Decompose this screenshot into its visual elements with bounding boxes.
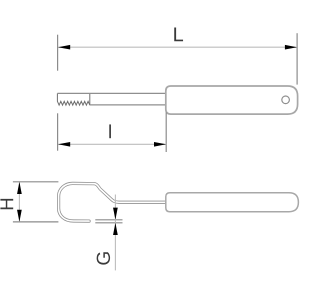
dimension H extension line bottom xyxy=(13,221,59,223)
label L xyxy=(174,27,183,41)
dimension L line xyxy=(58,46,297,48)
handle (side view) xyxy=(166,193,299,212)
dimension l extension line right xyxy=(165,112,167,152)
handle hole xyxy=(282,96,290,104)
arrow G up xyxy=(113,223,118,235)
serrated tip (top view) xyxy=(57,93,89,105)
arrow l left xyxy=(58,142,70,147)
dimension l line xyxy=(58,143,166,145)
dimension l extension line left xyxy=(57,113,59,150)
arrow H bottom xyxy=(17,210,22,222)
dimension G line xyxy=(114,195,116,271)
arrow G down xyxy=(113,208,118,220)
dimension L extension line right xyxy=(296,33,298,84)
dimension H line xyxy=(18,182,20,222)
label H xyxy=(0,199,13,209)
arrow L left xyxy=(58,45,70,50)
dimension L extension line left xyxy=(57,35,59,71)
arrow H top xyxy=(17,182,22,194)
hook blade (side view band) xyxy=(59,183,166,221)
handle (top view) xyxy=(166,86,298,114)
label G xyxy=(97,252,110,264)
tip/shaft divider xyxy=(89,93,91,105)
label l xyxy=(109,124,111,138)
arrow l right xyxy=(154,142,166,147)
dimension G extension line bottom xyxy=(95,222,122,224)
arrow L right xyxy=(285,45,297,50)
shaft (top view) xyxy=(57,93,166,105)
dimension H extension line top xyxy=(13,181,59,183)
dimension G extension line top xyxy=(95,219,122,221)
